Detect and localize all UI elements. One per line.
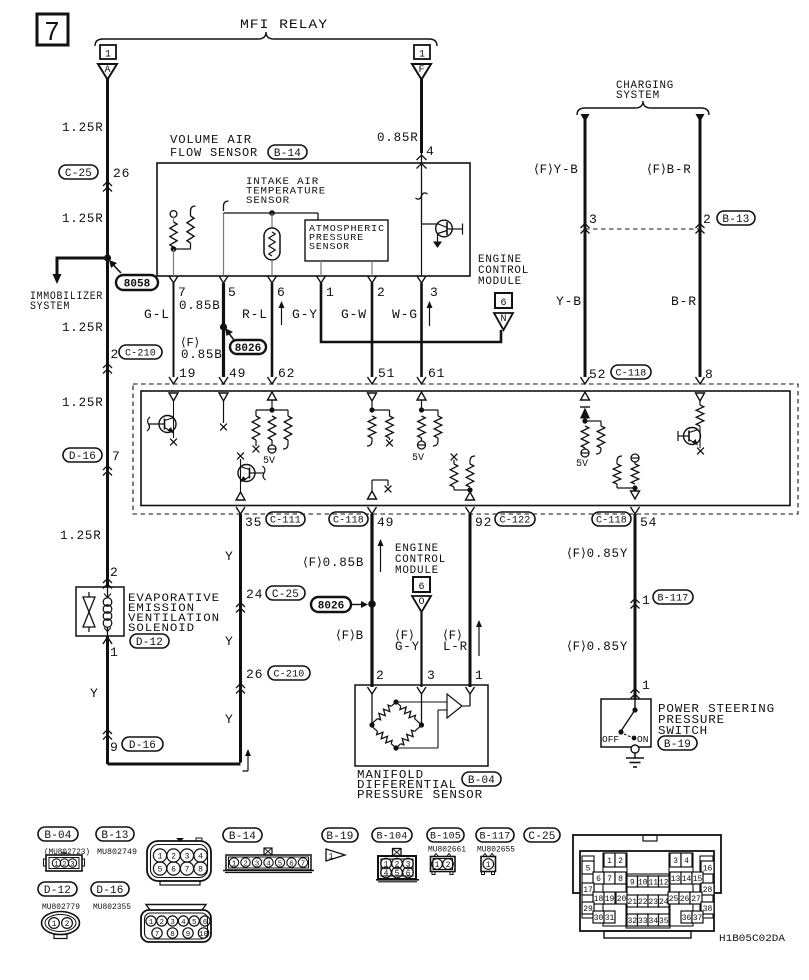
direction arrow at bottom corner: [243, 749, 252, 771]
legend connector B-19 label: [322, 828, 358, 843]
svg-text:52: 52: [589, 367, 606, 382]
svg-text:MU802655: MU802655: [477, 846, 515, 855]
svg-text:14: 14: [682, 875, 692, 884]
solenoid coil: [103, 587, 112, 636]
pin 6 label (VAF): [277, 285, 286, 300]
svg-text:1: 1: [329, 853, 334, 862]
svg-text:3: 3: [427, 668, 436, 683]
solenoid valve symbol: [83, 592, 95, 632]
wire Y solenoid to ground run: [106, 636, 109, 764]
legend connector B-117 label: [476, 828, 514, 843]
svg-text:MODULE: MODULE: [395, 565, 439, 577]
junction node 8058 on main wire: [104, 254, 111, 261]
junction splice 8026 on 0.85B wire: [220, 323, 227, 330]
label Y (solenoid): [90, 686, 99, 701]
connector boundary dashed B-13: [585, 228, 700, 230]
svg-text:1.25R: 1.25R: [62, 212, 104, 226]
ECM pin 49 bottom and C-118 label: [329, 512, 394, 530]
svg-text:30: 30: [594, 914, 604, 923]
svg-text:1: 1: [419, 50, 425, 61]
label F Y-B: [534, 163, 579, 177]
svg-text:B-117: B-117: [479, 832, 510, 843]
diagram code H1B05C02DA: [719, 933, 786, 945]
wheatstone bridge wires: [372, 694, 470, 725]
svg-text:19: 19: [179, 366, 196, 381]
ECM pin 92 and C-122 label: [475, 512, 535, 530]
legend ECM connector C-25 shell: [573, 835, 721, 893]
connector fork ECM pin 61: [417, 377, 426, 384]
svg-text:24: 24: [659, 898, 669, 907]
wire F L-R ECM92 to MDP: [469, 514, 472, 687]
svg-text:2: 2: [110, 565, 119, 580]
svg-text:4: 4: [198, 853, 203, 862]
ECM internal input 19 triangle: [169, 393, 178, 401]
splice label 8058: [109, 260, 158, 290]
svg-text:1: 1: [149, 919, 154, 927]
svg-text:D-12: D-12: [136, 637, 163, 649]
svg-text:11: 11: [648, 878, 658, 887]
label 0.85B: [179, 299, 221, 313]
svg-text:MU802749: MU802749: [97, 848, 137, 857]
ECM pull-up network for 51: [367, 407, 393, 446]
connector fork VAF pin 5: [219, 276, 228, 283]
svg-text:1.25R: 1.25R: [62, 396, 104, 410]
svg-text:O: O: [418, 597, 424, 608]
svg-text:C-210: C-210: [125, 349, 156, 360]
ECM pin 52 and C-118 label: [589, 365, 651, 382]
svg-text:⟨F⟩B-R: ⟨F⟩B-R: [647, 163, 692, 177]
ECM internal transistor Q3: [678, 426, 704, 454]
page number box 7: [37, 14, 68, 46]
svg-text:21: 21: [627, 898, 637, 907]
svg-text:8: 8: [170, 931, 175, 939]
volume air flow sensor box: [157, 163, 470, 276]
connector triangle A (from MFI relay): [98, 64, 117, 80]
connector D-16 pin 7 label: [63, 448, 121, 464]
svg-text:Y: Y: [225, 549, 234, 564]
svg-text:6: 6: [418, 582, 424, 593]
label 1.25R (5): [60, 529, 102, 543]
svg-text:22: 22: [638, 898, 648, 907]
label INTAKE AIR TEMPERATURE SENSOR: [246, 176, 326, 207]
svg-text:1: 1: [642, 678, 651, 693]
svg-text:12: 12: [659, 878, 669, 887]
svg-text:26: 26: [246, 667, 263, 682]
connector fork MDP pin 2: [368, 687, 377, 694]
legend connector B-04 drawing: [44, 853, 85, 871]
PSP switch lever: [618, 699, 637, 740]
svg-text:28: 28: [703, 886, 713, 895]
svg-text:2: 2: [160, 919, 165, 927]
C-25 cells 9-12: [627, 876, 669, 887]
inline chevrons C-25 24: [236, 603, 245, 613]
splice label 8026 (lower): [311, 597, 368, 612]
connector fork ECM pin 19: [169, 377, 178, 384]
svg-text:N: N: [500, 314, 506, 325]
wire 1.25R main left vertical: [106, 79, 109, 587]
ECM zener diode pin 52: [580, 407, 590, 421]
label 0.85R: [377, 131, 419, 145]
svg-text:6: 6: [596, 875, 601, 884]
svg-text:9: 9: [186, 931, 191, 939]
label IMMOBILIZER SYSTEM: [30, 291, 103, 313]
label OFF / ON: [602, 734, 648, 745]
C-25 cell 29 left: [582, 902, 594, 914]
legend D-12 part number: [42, 903, 80, 912]
svg-text:B-13: B-13: [722, 214, 749, 226]
MDP pin 1 label: [475, 668, 484, 683]
svg-text:1: 1: [110, 645, 119, 660]
bridge resistor top-right: [396, 702, 420, 724]
label 1.25R (4): [62, 396, 104, 410]
label R-L: [242, 307, 268, 322]
svg-text:5: 5: [192, 919, 197, 927]
connector label B-04: [462, 772, 501, 787]
svg-text:8026: 8026: [235, 343, 261, 355]
connector fork ECM pin 49: [219, 377, 228, 384]
wire 0.85R from MFI relay F: [420, 79, 423, 153]
brace charging system: [577, 101, 709, 115]
svg-text:17: 17: [583, 886, 593, 895]
label Y (1): [225, 549, 234, 564]
svg-text:L-R: L-R: [443, 640, 468, 654]
connector B-117 pin 1 label: [642, 590, 693, 608]
inline chevrons solenoid pin 2: [103, 579, 112, 589]
wire F 0.85B ECM49 to MDP: [370, 514, 373, 687]
ECM internal network pin 92: [450, 454, 475, 500]
legend connector B-105 drawing: [431, 854, 456, 875]
C-25 cells row 1: [604, 853, 692, 867]
label 1.25R (3): [62, 321, 104, 335]
connector fork PSP pin 1: [631, 689, 640, 699]
wire G-L pin7 to ECM 19: [173, 283, 175, 377]
connector fork VAF pin 6: [268, 276, 277, 283]
connector fork ECM bottom 35: [236, 507, 245, 514]
connector B-13 pins 3 and 2: [589, 211, 755, 227]
svg-text:B-104: B-104: [376, 832, 407, 843]
svg-text:54: 54: [640, 515, 657, 530]
wire 0.85B pin5 to ECM 49: [222, 283, 225, 377]
label F G-Y: [395, 629, 420, 654]
legend B-13 part number: [97, 848, 137, 857]
svg-text:B-R: B-R: [671, 294, 697, 309]
wire IAT supply horizontal: [224, 213, 319, 220]
label 5V (61): [412, 453, 424, 464]
svg-text:10: 10: [199, 931, 209, 939]
MDP pin 3 label: [427, 668, 436, 683]
svg-text:D-16: D-16: [69, 451, 96, 463]
C-25 guide strips: [582, 853, 713, 928]
legend connector B-13 label: [96, 827, 134, 842]
C-25 cells 30-31: [593, 911, 615, 923]
connector fork ECM bottom 92: [466, 507, 475, 514]
ECM designator box 6 (lower): [413, 577, 430, 593]
svg-text:7: 7: [155, 931, 160, 939]
svg-text:5: 5: [395, 869, 400, 878]
wire G-Y pin1 to ECM symbol: [321, 283, 501, 342]
label Y (2): [225, 634, 234, 649]
svg-text:9: 9: [630, 878, 635, 887]
splice 8026 junction on lower wire: [368, 600, 376, 608]
op-amp in MDP sensor: [396, 694, 470, 748]
svg-text:33: 33: [638, 917, 648, 926]
wire APS output 1: [320, 261, 322, 276]
svg-text:2: 2: [171, 853, 176, 862]
svg-text:1: 1: [435, 861, 440, 870]
svg-text:OFF: OFF: [602, 734, 619, 745]
ECM 5V supply network for 62: [252, 407, 292, 453]
svg-text:D-16: D-16: [129, 740, 156, 752]
svg-text:3: 3: [430, 285, 439, 300]
junction of flow sensor resistors: [171, 246, 191, 252]
pin 4 label: [426, 144, 435, 159]
label F B-R: [647, 163, 692, 177]
power steering pressure switch box: [601, 699, 651, 747]
svg-text:1.25R: 1.25R: [62, 321, 104, 335]
svg-text:1: 1: [642, 593, 651, 608]
svg-text:26: 26: [113, 166, 130, 181]
svg-text:38: 38: [703, 905, 713, 914]
pin 5 label (VAF): [228, 285, 237, 300]
ECM internal transistor Q2 (pin 35 driver): [236, 453, 266, 500]
pin 1 label (VAF): [326, 285, 335, 300]
svg-text:49: 49: [377, 515, 394, 530]
C-25 cells 6-8: [593, 872, 626, 884]
MFI relay terminal 1 (left) pin box: [100, 45, 116, 61]
svg-text:6: 6: [500, 298, 506, 309]
svg-text:2: 2: [243, 861, 248, 869]
legend connector B-105 label: [427, 828, 464, 843]
ECM pin 19 label: [179, 366, 196, 381]
svg-text:26: 26: [680, 895, 690, 904]
label G-Y: [292, 307, 318, 322]
solenoid pin 2 label: [110, 565, 119, 580]
svg-text:1.25R: 1.25R: [62, 121, 104, 135]
svg-text:R-L: R-L: [242, 307, 268, 322]
svg-text:4: 4: [266, 861, 271, 869]
legend B-04 part number: [44, 848, 90, 857]
svg-text:C-122: C-122: [499, 516, 530, 527]
svg-text:MU802355: MU802355: [93, 903, 131, 912]
C-25 cells 32-35: [627, 914, 669, 926]
svg-text:7: 7: [45, 16, 59, 46]
svg-text:61: 61: [428, 366, 445, 381]
svg-text:92: 92: [475, 515, 492, 530]
bridge junction nodes: [369, 699, 424, 750]
svg-text:2: 2: [62, 861, 66, 869]
label ENGINE CONTROL MODULE (lower): [395, 543, 446, 577]
svg-text:G-L: G-L: [144, 307, 170, 322]
svg-text:3: 3: [589, 212, 598, 227]
solenoid pin 1 label: [103, 637, 119, 660]
svg-text:SENSOR: SENSOR: [309, 242, 350, 252]
inline chevrons C-210 26: [236, 684, 245, 694]
legend connector B-13 drawing: [147, 838, 211, 885]
label Y (3): [225, 712, 234, 727]
svg-text:4: 4: [181, 919, 186, 927]
svg-text:1: 1: [52, 920, 57, 929]
ECM internal transistor Q1: [147, 401, 177, 445]
bridge resistor top-left: [372, 702, 396, 724]
legend B-105 part number: [428, 846, 466, 855]
svg-text:5V: 5V: [263, 456, 275, 467]
label ENGINE CONTROL MODULE (top): [478, 254, 529, 288]
svg-text:G-Y: G-Y: [292, 307, 318, 322]
bridge resistor bottom-right: [396, 727, 420, 749]
label B-R: [671, 294, 697, 309]
label 5V (52): [576, 459, 588, 470]
svg-text:1: 1: [475, 668, 484, 683]
svg-text:24: 24: [246, 587, 263, 602]
svg-text:5: 5: [278, 861, 283, 869]
connector fork VAF pin 1: [317, 276, 326, 283]
wire flow sensor to pin 7: [173, 249, 175, 276]
ECM pin 51 label: [378, 366, 395, 381]
C-25 cells 36-37: [681, 911, 703, 923]
inline connector chevrons C-210: [103, 364, 112, 374]
svg-text:C-118: C-118: [333, 516, 364, 527]
svg-text:35: 35: [245, 515, 262, 530]
svg-text:VOLUME AIR: VOLUME AIR: [170, 133, 252, 147]
label W-G: [392, 307, 418, 322]
svg-text:1: 1: [486, 861, 491, 870]
wire G-W pin2 to ECM 51: [371, 283, 374, 377]
legend ECM connector C-25 panel: [580, 851, 714, 938]
svg-text:31: 31: [605, 914, 615, 923]
svg-text:2: 2: [618, 857, 623, 866]
svg-text:2: 2: [65, 920, 70, 929]
direction arrow wire 49: [378, 539, 384, 572]
PSP pin 1 label: [642, 678, 651, 693]
ECM internal resistor pin 8: [696, 401, 704, 426]
svg-text:8: 8: [198, 866, 203, 875]
wire ECM O to MDP pin 3: [420, 612, 422, 687]
wire Y-B from charging system: [581, 114, 590, 377]
ECM internal input 51 triangle: [368, 393, 377, 410]
connector fork ECM pin 51: [368, 377, 377, 384]
direction arrow wire 92: [476, 620, 482, 656]
C-25 cell 17: [582, 883, 594, 895]
wire Y from ECM 35 down: [239, 514, 242, 763]
svg-text:5: 5: [158, 866, 163, 875]
legend connector B-104 label: [372, 828, 412, 843]
connector label D-12: [130, 634, 169, 649]
legend B-117 part number: [477, 846, 515, 855]
svg-text:19: 19: [605, 895, 615, 904]
svg-text:⟨F⟩Y-B: ⟨F⟩Y-B: [534, 163, 579, 177]
legend connector B-04 label: [38, 827, 78, 842]
wire R-L pin6 to ECM 62: [271, 283, 274, 377]
C-25 cell 28 right: [701, 883, 714, 895]
ECM pin 62 label: [278, 366, 295, 381]
svg-text:10: 10: [638, 878, 648, 887]
direction arrow wire 6: [279, 301, 285, 325]
wire inside sensor from pin 4: [416, 153, 428, 224]
svg-text:6: 6: [171, 866, 176, 875]
label F B: [336, 629, 364, 643]
svg-text:6: 6: [289, 861, 294, 869]
label G-L: [144, 307, 170, 322]
legend connector D-16 drawing: [141, 905, 211, 943]
ECM triangle O (lower): [412, 596, 431, 612]
connector label B-19: [658, 736, 697, 751]
thermistor intake air temperature sensor: [264, 213, 280, 276]
hook at intake air temp supply: [224, 201, 229, 211]
ECM internal network pin 54: [613, 454, 639, 499]
brace MFI relay: [95, 32, 437, 46]
label 1.25R (2): [62, 212, 104, 226]
svg-text:C-25: C-25: [272, 589, 299, 601]
PSP ground terminal circle: [631, 745, 639, 753]
svg-text:C-118: C-118: [596, 516, 627, 527]
svg-text:5V: 5V: [576, 459, 588, 470]
svg-text:D-12: D-12: [44, 885, 71, 897]
svg-text:⟨F⟩0.85B: ⟨F⟩0.85B: [303, 556, 364, 570]
svg-text:H1B05C02DA: H1B05C02DA: [719, 933, 786, 945]
svg-text:29: 29: [583, 905, 593, 914]
label F L-R: [443, 629, 468, 654]
connector fork ECM pin 8: [696, 377, 705, 384]
connector fork pin 4 into sensor: [417, 155, 427, 169]
C-25 cell 5: [582, 861, 594, 874]
label VOLUME AIR FLOW SENSOR: [170, 133, 258, 160]
svg-text:MU802661: MU802661: [428, 846, 466, 855]
label 5V (62): [263, 456, 275, 467]
connector D-16 pin 9 label: [110, 737, 163, 755]
svg-text:8058: 8058: [124, 278, 151, 290]
svg-text:C-210: C-210: [273, 670, 304, 681]
C-25 cells 25-27: [668, 892, 702, 904]
svg-text:C-118: C-118: [615, 369, 646, 380]
svg-text:51: 51: [378, 366, 395, 381]
svg-text:0.85R: 0.85R: [377, 131, 419, 145]
svg-text:62: 62: [278, 366, 295, 381]
svg-text:C-25: C-25: [528, 831, 555, 843]
legend connector B-104 drawing: [376, 849, 419, 882]
svg-text:Y-B: Y-B: [556, 294, 582, 309]
svg-text:5V: 5V: [412, 453, 424, 464]
ECM pin 8 label: [705, 367, 714, 382]
svg-text:49: 49: [229, 366, 246, 381]
svg-text:MU802779: MU802779: [42, 903, 80, 912]
connector triangle F (from MFI relay): [412, 64, 431, 80]
label 1.25R (1): [62, 121, 104, 135]
wire branch to immobilizer system: [53, 258, 108, 284]
C-25 cell 38 right: [701, 902, 714, 914]
svg-text:5: 5: [586, 864, 591, 873]
legend connector B-14 drawing: [223, 848, 314, 873]
ECM internal input 8 triangle: [696, 393, 705, 401]
svg-text:G-Y: G-Y: [395, 640, 420, 654]
svg-text:3: 3: [255, 861, 260, 869]
legend D-16 part number: [93, 903, 131, 912]
ECM internal input 52 triangle: [581, 392, 590, 400]
junction IAT sensor top: [269, 210, 275, 216]
svg-text:F: F: [418, 65, 424, 76]
ECM 5V network pin 52: [581, 418, 605, 457]
svg-text:35: 35: [659, 917, 669, 926]
connector C-210 pin 2 label: [111, 345, 163, 362]
ECM pin 61 label: [428, 366, 445, 381]
evaporative emission ventilation solenoid box: [76, 587, 124, 636]
svg-text:7: 7: [112, 449, 121, 464]
svg-text:W-G: W-G: [392, 307, 418, 322]
svg-text:1: 1: [105, 50, 111, 61]
legend connector D-16 label: [91, 882, 129, 897]
svg-text:0.85B: 0.85B: [181, 348, 223, 362]
label F 0.85Y (lower): [567, 640, 628, 654]
svg-text:⟨F⟩0.85Y: ⟨F⟩0.85Y: [567, 547, 628, 561]
